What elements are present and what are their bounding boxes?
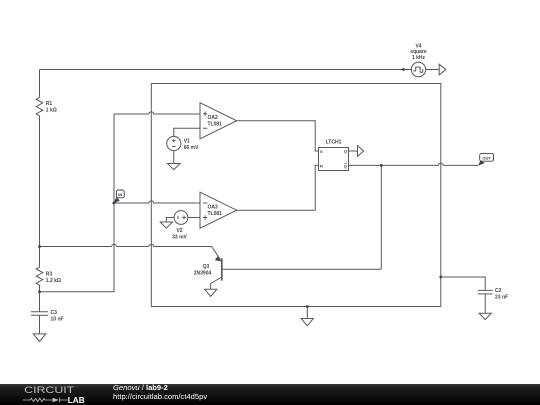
svg-text:R1: R1 — [46, 101, 53, 107]
svg-text:66 mV: 66 mV — [184, 145, 199, 151]
svg-text:Q: Q — [344, 149, 347, 154]
svg-text:LTCH1: LTCH1 — [326, 140, 342, 146]
svg-text:TL081: TL081 — [208, 122, 223, 128]
svg-text:C2: C2 — [495, 288, 502, 294]
svg-text:1 kΩ: 1 kΩ — [46, 108, 57, 114]
svg-text:23 nF: 23 nF — [495, 295, 508, 301]
svg-text:TL081: TL081 — [208, 211, 223, 217]
svg-text:1.2 kΩ: 1.2 kΩ — [46, 278, 61, 284]
svg-text:V1: V1 — [184, 139, 190, 145]
svg-text:R: R — [320, 163, 323, 168]
svg-text:33 mV: 33 mV — [172, 235, 187, 241]
svg-text:OUT: OUT — [482, 155, 491, 160]
svg-text:OA3: OA3 — [208, 205, 219, 211]
svg-text:C3: C3 — [51, 310, 58, 316]
svg-text:CIRCUIT: CIRCUIT — [24, 385, 74, 396]
svg-text:V2: V2 — [176, 228, 182, 234]
svg-text:Q: Q — [344, 163, 347, 168]
svg-text:2N3904: 2N3904 — [194, 271, 212, 277]
svg-text:R3: R3 — [46, 272, 53, 278]
svg-text:1 kHz: 1 kHz — [412, 55, 426, 61]
svg-text:OA2: OA2 — [208, 115, 219, 121]
svg-text:LAB: LAB — [68, 396, 85, 405]
svg-text:S: S — [320, 149, 323, 154]
svg-text:IN: IN — [118, 192, 122, 197]
svg-text:Q3: Q3 — [203, 264, 210, 270]
svg-text:10 nF: 10 nF — [51, 317, 64, 323]
